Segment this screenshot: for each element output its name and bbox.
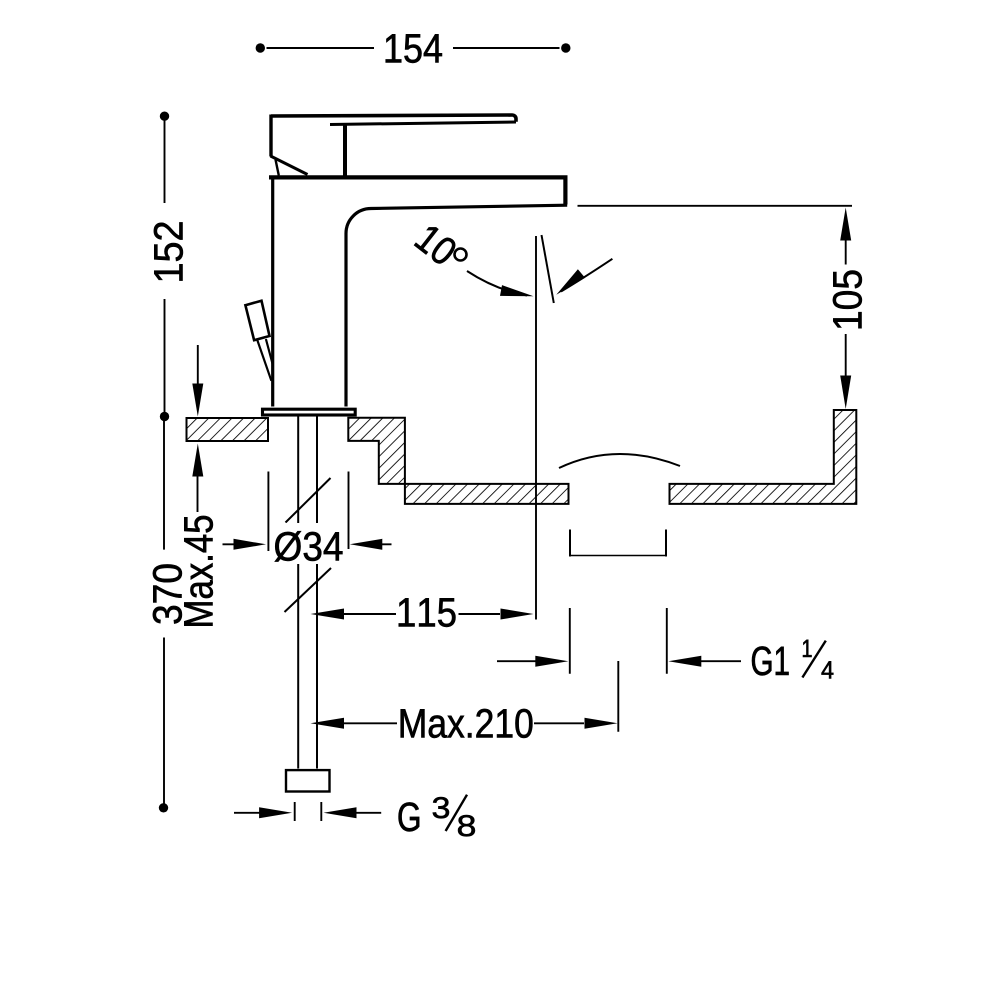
dim G114 ext line right xyxy=(666,608,668,674)
dim G38 left arrow xyxy=(234,812,260,814)
pop-up rod knob xyxy=(245,301,269,341)
dim 154 line left xyxy=(267,47,375,49)
label 115 xyxy=(399,598,456,627)
label 105 xyxy=(833,271,862,329)
dim Max45 upper line xyxy=(197,345,199,384)
handle rear corner line xyxy=(276,160,279,176)
G3/8 connector block xyxy=(286,770,330,791)
dim G114 right arrow xyxy=(668,656,701,667)
dim 105 ext line xyxy=(578,205,853,207)
dim Max210 ext line xyxy=(617,661,619,732)
pipe break slash lower xyxy=(285,568,332,612)
dim Max45 lower arrowhead xyxy=(192,444,203,477)
dim O34 ext line left xyxy=(267,472,269,552)
label 370 xyxy=(153,564,182,623)
faucet spout underside xyxy=(346,205,567,406)
dim G38 ext line left xyxy=(294,802,296,821)
countertop left section xyxy=(187,418,269,441)
label 10 degrees xyxy=(414,223,459,267)
handle lever bottom edge xyxy=(330,122,516,125)
angle arc right arrowhead xyxy=(556,269,585,295)
supply pipe left line xyxy=(297,417,299,769)
dim G114 ext line left xyxy=(569,608,571,674)
label 154 xyxy=(386,34,442,63)
dim 152 dot top xyxy=(160,112,169,121)
dim O34 ext line right xyxy=(348,472,350,550)
dim 370 dot bottom xyxy=(159,803,168,812)
countertop right Z section xyxy=(348,418,568,504)
dim 154 dot right xyxy=(561,43,570,52)
dim 152 line upper xyxy=(164,120,166,203)
dim Max210 left arrow xyxy=(311,718,345,729)
faucet body left edge xyxy=(271,176,274,407)
drain tailpiece right xyxy=(665,530,667,557)
label G1 1/4 xyxy=(752,646,789,675)
dim Max45 lower line xyxy=(197,476,199,512)
label Max.45 xyxy=(184,516,213,626)
dim O34 left arrow xyxy=(223,543,241,545)
handle back vertical xyxy=(343,126,347,176)
label O34 xyxy=(272,523,345,564)
handle left edge xyxy=(269,115,272,157)
faucet body outline xyxy=(269,177,565,204)
dim 115 left arrow xyxy=(311,609,345,620)
supply pipe right line xyxy=(316,417,318,769)
pipe break slash upper xyxy=(286,478,331,523)
label Max.210 xyxy=(401,709,533,738)
angle arc left arrowhead xyxy=(500,285,534,296)
drain tailpiece left xyxy=(569,530,571,557)
tilted 10 degree line xyxy=(542,235,554,303)
countertop right end with flange xyxy=(670,410,857,504)
label G 3/8 xyxy=(399,802,420,831)
handle lever top edge xyxy=(271,115,516,122)
dim 370 line upper xyxy=(163,421,165,550)
label 152 xyxy=(154,222,183,280)
dim Max45 upper arrowhead xyxy=(192,384,203,417)
dim G38 right arrow xyxy=(324,807,357,818)
pop-up rod lines xyxy=(257,340,271,380)
spout axis centerline xyxy=(535,236,537,620)
basin curve arc xyxy=(559,454,680,468)
dim 154 line right xyxy=(453,47,560,49)
angle arc right xyxy=(561,259,612,292)
dim 152 line lower xyxy=(164,299,166,413)
dim O34 right arrow xyxy=(375,543,392,545)
dim 105 lower line and arrowhead xyxy=(845,334,847,376)
dim G38 ext line right xyxy=(320,802,322,821)
dim Max210 right arrow xyxy=(534,722,584,724)
dim 115 right arrow xyxy=(459,613,501,615)
angle arc left xyxy=(467,271,527,296)
dim 152 dot bottom xyxy=(160,412,169,421)
dim 154 dot left xyxy=(256,43,265,52)
drain tailpiece bottom xyxy=(569,555,667,557)
dim 370 line lower xyxy=(163,638,165,804)
escutcheon base plate xyxy=(263,409,356,415)
dim G114 left arrow xyxy=(497,660,536,662)
handle bottom diagonal xyxy=(271,156,308,175)
dim 105 upper arrowhead xyxy=(840,208,851,241)
